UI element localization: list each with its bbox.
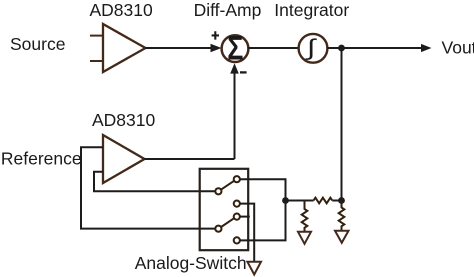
svg-text:Source: Source [10, 34, 65, 54]
wire A2 lower input loop to switch S1 pole [94, 172, 215, 192]
wire A2 upper input loop to switch S2 pole [81, 147, 215, 228]
wire integrator to Vout [327, 47, 422, 49]
switch S2 throw contact 2 [234, 237, 240, 243]
ground G1 [298, 232, 311, 244]
plus sign [212, 31, 219, 39]
wire junction dot down to resistor network [341, 48, 343, 201]
wire S2 throw1 stub to box edge [240, 216, 250, 218]
analog switch box [200, 169, 249, 250]
svg-text:Reference: Reference [1, 149, 82, 169]
svg-text:Analog-Switch: Analog-Switch [135, 253, 247, 273]
svg-text:AD8310: AD8310 [90, 0, 154, 20]
junction dot node C [338, 197, 345, 204]
switch S1 throw contact 1 [234, 176, 240, 182]
svg-text:Σ: Σ [227, 30, 243, 68]
svg-text:AD8310: AD8310 [92, 110, 156, 130]
ground G3 below box [247, 262, 261, 275]
resistor R3 (right vertical) with stubs [339, 201, 345, 231]
wire A2 output to node under summing junction [145, 158, 235, 160]
wire S2 throw2 to node B [240, 201, 286, 241]
amplifier A1 input stub - [90, 60, 102, 62]
svg-text:Integrator: Integrator [274, 0, 349, 20]
amplifier A1 (AD8310 source) [103, 24, 146, 72]
junction dot node B [282, 197, 289, 204]
wire summing junction to integrator [248, 47, 299, 49]
wire S1 throw2 to ground [240, 204, 254, 262]
integrator circle [299, 34, 328, 63]
arrow into summing junction (plus input) [211, 44, 222, 53]
junction dot at integrator output [338, 45, 345, 52]
switch S2 throw contact 1 [234, 214, 240, 220]
switch S2 blade [221, 218, 234, 227]
amplifier A2 (AD8310 reference) [103, 135, 145, 183]
wire S1 throw1 to node B [240, 179, 286, 200]
wire node B to resistor R1 [286, 200, 314, 202]
resistor R2 (left vertical) with stubs [302, 201, 308, 232]
ground G2 [335, 231, 349, 243]
minus sign [240, 71, 247, 73]
switch S1 blade [221, 181, 234, 190]
amplifier A1 input stub + [90, 35, 102, 37]
switch S1 throw contact 2 [234, 201, 240, 207]
arrow into summing junction (minus input) [230, 63, 239, 73]
wire R1 to node C [332, 200, 341, 202]
summing junction circle (Diff-Amp) [222, 35, 249, 62]
arrowhead Vout [421, 44, 432, 52]
wire reference amp output vertical to summing junction [234, 72, 236, 159]
switch S2 pole contact [215, 226, 221, 232]
wire A1 output to summing junction [146, 47, 213, 49]
resistor R1 (horizontal) [314, 198, 333, 204]
svg-text:Diff-Amp: Diff-Amp [194, 0, 262, 20]
svg-text:Vout: Vout [442, 38, 474, 58]
switch S1 pole contact [215, 188, 221, 194]
